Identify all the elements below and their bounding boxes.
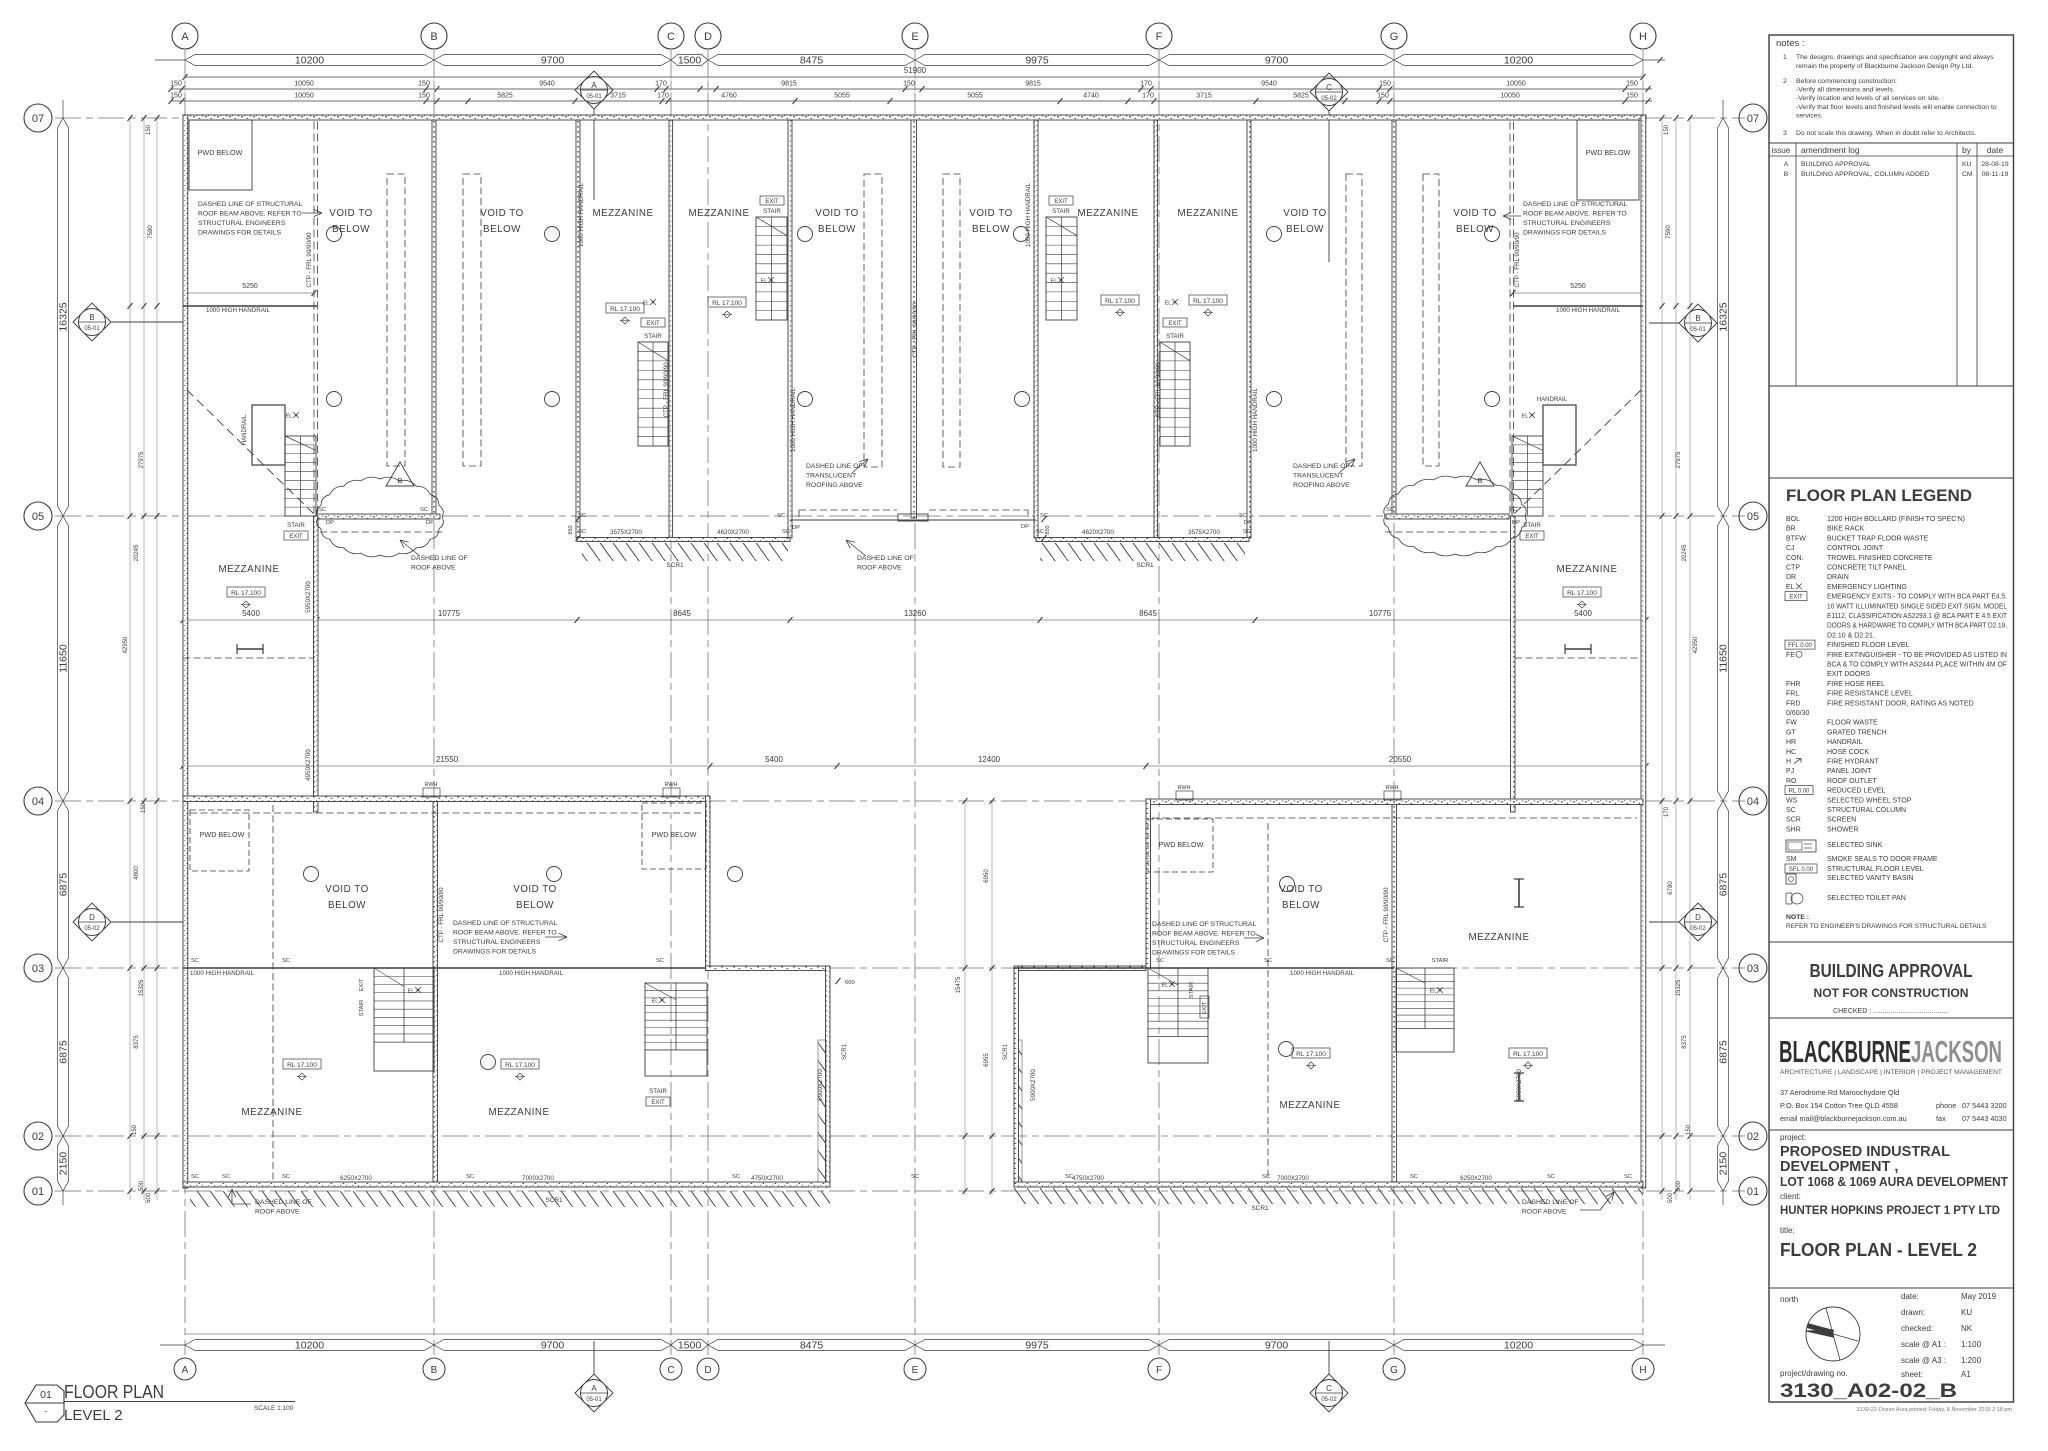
svg-text:07 5443 3200: 07 5443 3200 xyxy=(1962,1101,2007,1110)
svg-text:VOID TO: VOID TO xyxy=(969,208,1012,219)
svg-text:05-02: 05-02 xyxy=(1321,1397,1337,1403)
svg-text:SC: SC xyxy=(1036,529,1044,535)
svg-text:RWH: RWH xyxy=(1177,785,1190,791)
svg-text:150: 150 xyxy=(1626,81,1638,88)
svg-text:C: C xyxy=(667,31,675,43)
svg-text:3130_A02-02_B: 3130_A02-02_B xyxy=(1780,1381,1957,1402)
svg-text:SC: SC xyxy=(782,529,790,535)
svg-text:FE: FE xyxy=(1786,652,1795,659)
sheet title hexagon xyxy=(25,1385,64,1422)
svg-text:FIRE HOSE REEL: FIRE HOSE REEL xyxy=(1827,681,1885,688)
svg-text:E: E xyxy=(911,31,918,43)
svg-text:HUNTER HOPKINS PROJECT 1 PTY L: HUNTER HOPKINS PROJECT 1 PTY LTD xyxy=(1780,1203,2000,1217)
svg-text:STAIR: STAIR xyxy=(1432,958,1449,964)
svg-text:3: 3 xyxy=(1783,130,1787,137)
svg-text:RL 17.100: RL 17.100 xyxy=(1193,298,1223,305)
svg-text:BELOW: BELOW xyxy=(1282,900,1320,911)
svg-text:BELOW: BELOW xyxy=(972,224,1010,235)
wall interior upper x1036 xyxy=(1034,120,1038,538)
wall exterior right xyxy=(1641,115,1646,1188)
svg-text:BELOW: BELOW xyxy=(818,224,856,235)
wall lower-left bottom xyxy=(183,1182,830,1187)
svg-text:SC: SC xyxy=(1386,958,1394,964)
svg-text:10050: 10050 xyxy=(294,81,314,88)
svg-text:1500: 1500 xyxy=(678,55,702,67)
svg-text:EL: EL xyxy=(286,414,293,420)
svg-text:REFER TO ENGINEER'S DRAWINGS F: REFER TO ENGINEER'S DRAWINGS FOR STRUCTU… xyxy=(1786,923,1987,930)
svg-text:B: B xyxy=(1477,476,1482,485)
north arrow xyxy=(1806,1307,1860,1361)
stair wing left xyxy=(252,405,285,465)
svg-text:02: 02 xyxy=(1747,1131,1759,1143)
svg-text:850: 850 xyxy=(568,525,574,534)
svg-text:PWD BELOW: PWD BELOW xyxy=(1586,148,1631,157)
handrail lower-right xyxy=(1014,967,1394,969)
svg-text:4800: 4800 xyxy=(134,866,140,880)
dashed roof inset centre bay xyxy=(799,509,897,511)
svg-text:B: B xyxy=(397,476,402,485)
column circle 4 xyxy=(1014,227,1029,242)
svg-text:EL: EL xyxy=(643,301,650,307)
svg-text:5250: 5250 xyxy=(242,283,258,290)
svg-text:5400: 5400 xyxy=(765,755,783,764)
wall interior upper x577 xyxy=(576,120,580,538)
svg-text:10200: 10200 xyxy=(1504,1340,1533,1352)
svg-text:CM: CM xyxy=(1962,171,1973,178)
svg-text:EMERGENCY LIGHTING: EMERGENCY LIGHTING xyxy=(1827,584,1907,591)
svg-text:01: 01 xyxy=(1747,1186,1759,1198)
scr1 strip bottom left xyxy=(190,1191,830,1207)
svg-text:2: 2 xyxy=(1783,78,1787,85)
svg-text:EXIT: EXIT xyxy=(359,978,365,991)
svg-text:EXIT: EXIT xyxy=(1789,595,1803,601)
dashed roof slot 1 xyxy=(387,174,405,466)
svg-text:15325: 15325 xyxy=(1676,979,1682,996)
svg-text:9700: 9700 xyxy=(1265,1340,1289,1352)
svg-text:05: 05 xyxy=(32,511,44,523)
svg-text:-Verify that floor levels and: -Verify that floor levels and finished l… xyxy=(1796,104,1997,111)
svg-text:E1112, CLASSIFICATION AS2293.1: E1112, CLASSIFICATION AS2293.1 @ BCA PAR… xyxy=(1827,613,2008,620)
svg-text:drawn:: drawn: xyxy=(1901,1308,1925,1317)
svg-text:EXIT: EXIT xyxy=(1168,321,1182,327)
svg-text:1000 HIGH HANDRAIL: 1000 HIGH HANDRAIL xyxy=(1556,307,1621,314)
svg-text:EL: EL xyxy=(652,999,659,1005)
svg-text:CON.: CON. xyxy=(1786,555,1804,562)
svg-text:KU: KU xyxy=(1962,161,1972,168)
svg-text:KU: KU xyxy=(1961,1308,1972,1317)
grid line 02 xyxy=(55,1135,1745,1137)
svg-text:The designs, drawings and spec: The designs, drawings and specification … xyxy=(1796,54,1994,61)
rl tag 5 xyxy=(227,587,265,597)
svg-text:RL 17.100: RL 17.100 xyxy=(1105,298,1135,305)
dashed roof line lower-left xyxy=(190,812,703,814)
svg-text:SC: SC xyxy=(1624,1174,1632,1180)
rwh box 4 xyxy=(1384,791,1401,800)
svg-text:11650: 11650 xyxy=(1718,644,1730,673)
wall wing left vertical xyxy=(314,516,319,812)
wall wing right vertical xyxy=(1511,516,1516,812)
svg-text:850: 850 xyxy=(1045,525,1051,534)
dimension row main top xyxy=(185,55,434,66)
wall upper band centre bay bottom xyxy=(790,519,1036,521)
svg-text:SCR1: SCR1 xyxy=(1003,1043,1009,1060)
svg-text:9540: 9540 xyxy=(1261,81,1277,88)
grid bubble G top xyxy=(1381,23,1407,49)
scr1 strip upper right xyxy=(1040,543,1245,561)
svg-text:BR: BR xyxy=(1786,526,1796,533)
svg-text:ROOFING ABOVE: ROOFING ABOVE xyxy=(806,482,863,489)
svg-text:1000 HIGH HANDRAIL: 1000 HIGH HANDRAIL xyxy=(578,182,585,247)
svg-text:150: 150 xyxy=(1686,1124,1692,1135)
grid bubble 04 right xyxy=(1739,787,1767,815)
svg-text:SCR: SCR xyxy=(1786,817,1801,824)
svg-text:170: 170 xyxy=(1140,81,1152,88)
pwd below box upper-right xyxy=(1577,120,1639,200)
svg-text:HANDRAIL: HANDRAIL xyxy=(1537,397,1568,403)
svg-text:-: - xyxy=(45,1406,48,1416)
svg-text:HOSE COCK: HOSE COCK xyxy=(1827,749,1869,756)
svg-text:5900X2700: 5900X2700 xyxy=(817,1069,824,1101)
ibeam column right 1 xyxy=(1514,878,1524,880)
dimension row top sub2 xyxy=(171,100,1652,102)
svg-text:8375: 8375 xyxy=(1682,1035,1688,1049)
svg-text:client:: client: xyxy=(1780,1192,1801,1201)
svg-text:21550: 21550 xyxy=(436,755,459,764)
svg-text:9975: 9975 xyxy=(1025,55,1049,67)
svg-text:SC: SC xyxy=(222,1174,230,1180)
svg-text:GRATED TRENCH: GRATED TRENCH xyxy=(1827,729,1887,736)
svg-text:SM: SM xyxy=(1786,856,1797,863)
svg-text:FINISHED FLOOR LEVEL: FINISHED FLOOR LEVEL xyxy=(1827,642,1910,649)
svg-text:ROOFING ABOVE: ROOFING ABOVE xyxy=(1293,482,1350,489)
svg-text:PWD BELOW: PWD BELOW xyxy=(200,830,245,839)
svg-text:FLOOR PLAN - LEVEL 2: FLOOR PLAN - LEVEL 2 xyxy=(1780,1240,1977,1260)
column circle 12 xyxy=(1485,392,1500,407)
svg-text:SC: SC xyxy=(1786,807,1796,814)
svg-text:PANEL JOINT: PANEL JOINT xyxy=(1827,768,1872,775)
svg-text:37 Aerodrome Rd Maroochydore Q: 37 Aerodrome Rd Maroochydore Qld xyxy=(1780,1088,1899,1097)
svg-text:SC: SC xyxy=(732,1174,740,1180)
svg-text:05-01: 05-01 xyxy=(1690,327,1706,333)
wall interior upper F xyxy=(1154,120,1158,538)
svg-text:8475: 8475 xyxy=(800,1340,824,1352)
svg-text:12400: 12400 xyxy=(978,755,1001,764)
svg-text:SCREEN: SCREEN xyxy=(1827,817,1856,824)
stair wing right xyxy=(1543,405,1576,465)
svg-text:150: 150 xyxy=(903,81,915,88)
svg-text:1000 HIGH HANDRAIL: 1000 HIGH HANDRAIL xyxy=(1025,182,1032,247)
svg-text:EL: EL xyxy=(1162,983,1169,989)
svg-text:BCA & TO COMPLY WITH AS2444 PL: BCA & TO COMPLY WITH AS2444 PLACE WITHIN… xyxy=(1827,662,2007,669)
svg-text:BELOW: BELOW xyxy=(1286,224,1324,235)
grid line 03 xyxy=(55,967,1745,969)
svg-text:SHR: SHR xyxy=(1786,826,1801,833)
svg-text:STAIR: STAIR xyxy=(649,1088,667,1095)
svg-text:FRL: FRL xyxy=(1786,691,1799,698)
svg-text:6780: 6780 xyxy=(1668,881,1674,895)
stair lower 1 xyxy=(374,968,434,1071)
svg-text:DASHED LINE OF: DASHED LINE OF xyxy=(255,1199,312,1206)
svg-text:10775: 10775 xyxy=(1369,609,1392,618)
svg-text:DRAWINGS FOR DETAILS: DRAWINGS FOR DETAILS xyxy=(1152,950,1236,957)
svg-text:A: A xyxy=(591,1384,597,1393)
svg-text:5055: 5055 xyxy=(834,93,850,100)
svg-text:SC: SC xyxy=(1509,507,1517,513)
svg-text:DASHED LINE OF STRUCTURAL: DASHED LINE OF STRUCTURAL xyxy=(1523,201,1627,208)
wall interior upper G xyxy=(1392,120,1396,516)
svg-text:FIRE EXTINGUISHER - TO BE PROV: FIRE EXTINGUISHER - TO BE PROVIDED AS LI… xyxy=(1827,652,2007,659)
svg-text:150: 150 xyxy=(146,124,152,135)
svg-text:EXIT DOORS: EXIT DOORS xyxy=(1827,671,1870,678)
svg-text:MEZZANINE: MEZZANINE xyxy=(488,1107,549,1118)
svg-text:10 WATT ILLUMINATED SINGLE SID: 10 WATT ILLUMINATED SINGLE SIDED EXIT SI… xyxy=(1827,603,2007,610)
svg-text:SC: SC xyxy=(282,958,290,964)
section marker C 05-02 top xyxy=(1328,92,1330,262)
svg-text:SC: SC xyxy=(578,513,586,519)
svg-text:DOORS & HARDWARE TO COMPLY WIT: DOORS & HARDWARE TO COMPLY WITH BCA PART… xyxy=(1827,623,2007,630)
svg-text:H: H xyxy=(1786,759,1791,766)
svg-text:B: B xyxy=(1784,171,1789,178)
svg-text:DASHED LINE OF STRUCTURAL: DASHED LINE OF STRUCTURAL xyxy=(453,920,557,927)
svg-text:CTP - FRL 90/90/90: CTP - FRL 90/90/90 xyxy=(663,362,670,418)
svg-text:150: 150 xyxy=(170,81,182,88)
svg-text:BELOW: BELOW xyxy=(328,900,366,911)
rl tag 6 xyxy=(1563,587,1601,597)
svg-text:20245: 20245 xyxy=(1682,544,1688,561)
dashed roof slot 4 xyxy=(943,174,960,467)
wing dashed line right xyxy=(1515,657,1639,659)
svg-text:MEZZANINE: MEZZANINE xyxy=(218,564,279,575)
column circle 16 xyxy=(728,867,743,882)
svg-text:PWD BELOW: PWD BELOW xyxy=(652,830,697,839)
svg-text:10775: 10775 xyxy=(438,609,461,618)
svg-text:STRUCTURAL ENGINEERS: STRUCTURAL ENGINEERS xyxy=(453,939,541,946)
svg-text:MEZZANINE: MEZZANINE xyxy=(1468,932,1529,943)
amendment table columns xyxy=(1795,143,1797,386)
svg-text:DP: DP xyxy=(426,520,434,526)
svg-text:NK: NK xyxy=(1961,1324,1973,1333)
svg-text:SELECTED TOILET PAN: SELECTED TOILET PAN xyxy=(1827,895,1906,902)
svg-text:scale @ A3 :: scale @ A3 : xyxy=(1901,1356,1946,1365)
grid line E xyxy=(914,50,916,1355)
svg-text:RWH: RWH xyxy=(664,782,677,788)
svg-text:SC: SC xyxy=(1040,513,1048,519)
svg-text:EL: EL xyxy=(1522,414,1529,420)
svg-text:SMOKE SEALS TO DOOR FRAME: SMOKE SEALS TO DOOR FRAME xyxy=(1827,856,1938,863)
svg-text:DP: DP xyxy=(326,520,334,526)
svg-text:EL: EL xyxy=(761,279,768,285)
svg-text:SCR1: SCR1 xyxy=(1251,1205,1269,1212)
svg-text:ROOF BEAM ABOVE. REFER TO: ROOF BEAM ABOVE. REFER TO xyxy=(1523,211,1627,218)
svg-text:VOID TO: VOID TO xyxy=(329,208,372,219)
svg-text:VOID TO: VOID TO xyxy=(480,208,523,219)
svg-text:MEZZANINE: MEZZANINE xyxy=(241,1107,302,1118)
svg-text:5400: 5400 xyxy=(242,609,260,618)
svg-text:4750X2700: 4750X2700 xyxy=(751,1175,783,1182)
column circle 17 xyxy=(481,1055,496,1070)
svg-text:SC: SC xyxy=(777,513,785,519)
dashed roof line below wing left xyxy=(320,531,445,533)
svg-text:05-01: 05-01 xyxy=(586,1397,602,1403)
svg-text:EXIT: EXIT xyxy=(1054,199,1068,205)
svg-text:SELECTED VANITY BASIN: SELECTED VANITY BASIN xyxy=(1827,875,1914,882)
svg-text:STAIR: STAIR xyxy=(1052,208,1070,215)
svg-text:ROOF BEAM ABOVE. REFER TO: ROOF BEAM ABOVE. REFER TO xyxy=(1152,931,1256,938)
svg-text:5400: 5400 xyxy=(1574,609,1592,618)
svg-text:SC: SC xyxy=(1386,507,1394,513)
svg-text:remain the property of Blackbu: remain the property of Blackburne Jackso… xyxy=(1796,63,1973,70)
svg-text:GT: GT xyxy=(1786,729,1796,736)
svg-text:07 5443 4030: 07 5443 4030 xyxy=(1962,1114,2007,1123)
dashed roof beam lower-left vertical xyxy=(272,805,274,1180)
scr1 wall wing left hatch xyxy=(1014,1040,1022,1185)
svg-text:4750X2700: 4750X2700 xyxy=(1072,1175,1104,1182)
svg-text:9700: 9700 xyxy=(1265,55,1289,67)
svg-text:STRUCTURAL COLUMN: STRUCTURAL COLUMN xyxy=(1827,807,1906,814)
svg-text:PWD BELOW: PWD BELOW xyxy=(198,148,243,157)
svg-text:SC: SC xyxy=(1547,1174,1555,1180)
wall lower-left block top xyxy=(183,796,710,802)
dashed roof slot 5 xyxy=(1346,174,1362,466)
svg-text:500: 500 xyxy=(1668,1192,1674,1203)
grid bubble D top xyxy=(695,23,721,49)
rwh box 2 xyxy=(663,788,680,797)
svg-text:CONCRETE TILT PANEL: CONCRETE TILT PANEL xyxy=(1827,565,1906,572)
svg-text:FHR: FHR xyxy=(1786,681,1800,688)
svg-text:6875: 6875 xyxy=(58,1040,70,1064)
scr1 strip bottom right xyxy=(1014,1188,1643,1204)
svg-text:1:100: 1:100 xyxy=(1961,1340,1982,1349)
stair upper 4 xyxy=(1160,342,1190,446)
svg-text:FIRE RESISTANCE LEVEL: FIRE RESISTANCE LEVEL xyxy=(1827,691,1913,698)
svg-text:C: C xyxy=(1326,83,1332,92)
svg-text:EXIT: EXIT xyxy=(289,534,303,540)
svg-text:VOID TO: VOID TO xyxy=(1279,884,1322,895)
svg-text:150: 150 xyxy=(1664,124,1670,135)
dimension column right minor lines xyxy=(1661,118,1663,1200)
svg-text:8645: 8645 xyxy=(1139,609,1157,618)
svg-text:10200: 10200 xyxy=(295,1340,324,1352)
svg-text:07: 07 xyxy=(32,113,44,125)
svg-text:7000X2700: 7000X2700 xyxy=(1277,1175,1309,1182)
svg-text:RL 17.100: RL 17.100 xyxy=(1513,1051,1543,1058)
svg-text:4620X2700: 4620X2700 xyxy=(1082,529,1114,536)
ibeam wing right xyxy=(1565,644,1591,654)
wall upper band bottom segment 1 xyxy=(317,514,440,519)
svg-text:8375: 8375 xyxy=(134,1035,140,1049)
grid line F xyxy=(1158,50,1160,1355)
svg-text:SC: SC xyxy=(1262,1174,1270,1180)
svg-text:A: A xyxy=(182,1365,189,1376)
svg-text:amendment log: amendment log xyxy=(1801,145,1860,155)
svg-text:EL: EL xyxy=(1786,584,1795,591)
svg-text:STAIR: STAIR xyxy=(359,1000,365,1017)
svg-text:issue: issue xyxy=(1772,146,1791,155)
wing dashed line left xyxy=(183,657,313,659)
svg-text:SC: SC xyxy=(466,1174,474,1180)
svg-text:A: A xyxy=(1784,161,1789,168)
svg-text:05-02: 05-02 xyxy=(1690,926,1706,932)
svg-text:16325: 16325 xyxy=(58,302,70,331)
svg-text:BTFW: BTFW xyxy=(1786,535,1806,542)
grid line A xyxy=(184,50,186,1355)
svg-text:BIKE RACK: BIKE RACK xyxy=(1827,526,1865,533)
grid bubble 04 left xyxy=(24,787,52,815)
ibeam column right 2 xyxy=(1514,1072,1524,1074)
notch center bottom xyxy=(898,514,928,521)
svg-text:H: H xyxy=(1639,1365,1646,1376)
svg-text:07: 07 xyxy=(1747,113,1759,125)
svg-text:10050: 10050 xyxy=(1500,93,1520,100)
svg-text:WS: WS xyxy=(1786,797,1798,804)
wall lower-left lobe right xyxy=(826,966,831,1185)
dimension column left major xyxy=(58,118,69,516)
grid line C xyxy=(670,50,672,1355)
svg-text:02: 02 xyxy=(32,1131,44,1143)
dashed roof beam lower-right vertical xyxy=(1267,823,1269,1180)
svg-text:DP: DP xyxy=(1512,520,1520,526)
svg-text:4740: 4740 xyxy=(1083,93,1099,100)
column circle 10 xyxy=(1015,392,1030,407)
grid bubble H top xyxy=(1630,23,1656,49)
svg-text:G: G xyxy=(1390,31,1399,43)
stair lower 4 xyxy=(1396,968,1454,1052)
svg-text:27975: 27975 xyxy=(1676,451,1682,468)
svg-text:150: 150 xyxy=(1377,93,1389,100)
svg-text:ROOF ABOVE: ROOF ABOVE xyxy=(411,565,456,572)
svg-text:NOT FOR CONSTRUCTION: NOT FOR CONSTRUCTION xyxy=(1814,988,1969,1000)
svg-text:MEZZANINE: MEZZANINE xyxy=(1556,564,1617,575)
svg-text:SELECTED SINK: SELECTED SINK xyxy=(1827,842,1883,849)
revision cloud left xyxy=(317,477,444,557)
grid bubble F bottom xyxy=(1148,1358,1170,1380)
svg-text:BUILDING APPROVAL: BUILDING APPROVAL xyxy=(1801,161,1871,168)
svg-text:11650: 11650 xyxy=(58,644,70,673)
dimension row main bottom xyxy=(185,1333,1643,1335)
rl tag 3 xyxy=(1101,295,1139,305)
grid line 05 xyxy=(55,515,1745,517)
wall upper band mezz bottom left xyxy=(577,538,790,542)
dimension row overall 51900 xyxy=(185,76,1643,78)
dimension gap vertical lines xyxy=(964,800,966,1195)
svg-text:CONTROL JOINT: CONTROL JOINT xyxy=(1827,545,1884,552)
svg-text:1000 HIGH HANDRAIL: 1000 HIGH HANDRAIL xyxy=(1252,387,1259,452)
section marker D 05-02 right xyxy=(1649,921,1718,923)
svg-text:04: 04 xyxy=(32,796,44,808)
stair upper 3 xyxy=(1046,217,1077,320)
svg-text:CTP - FRL 90/90/90: CTP - FRL 90/90/90 xyxy=(1383,887,1390,943)
svg-text:DRAIN: DRAIN xyxy=(1827,574,1849,581)
ctp joint dashed x1512 xyxy=(1509,122,1511,514)
rwh box 1 xyxy=(423,788,440,797)
legend SFL xyxy=(1785,864,1817,873)
svg-text:150: 150 xyxy=(1626,93,1638,100)
svg-text:CTP - FRL 90/90/90: CTP - FRL 90/90/90 xyxy=(438,887,445,943)
svg-text:MEZZANINE: MEZZANINE xyxy=(1177,208,1238,219)
svg-text:5825: 5825 xyxy=(497,93,513,100)
svg-text:3130-22-Ocean Aura printed: Fr: 3130-22-Ocean Aura printed: Friday, 8 No… xyxy=(1856,1407,2012,1413)
svg-text:27975: 27975 xyxy=(139,451,145,468)
svg-text:500: 500 xyxy=(139,1180,145,1191)
dimension column right major xyxy=(1718,118,1729,516)
svg-text:FRD: FRD xyxy=(1786,700,1800,707)
svg-text:ROOF ABOVE: ROOF ABOVE xyxy=(255,1209,300,1216)
wall lower-left interior B xyxy=(433,802,438,1183)
svg-text:E: E xyxy=(912,1365,919,1376)
svg-text:150: 150 xyxy=(170,93,182,100)
wall interior upper B xyxy=(432,120,436,516)
wall interior upper center E xyxy=(911,120,917,518)
